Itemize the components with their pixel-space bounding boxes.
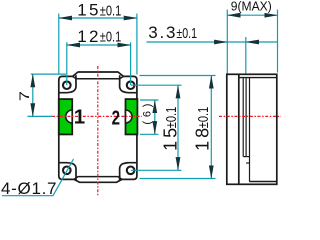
svg-text:2: 2 xyxy=(112,106,120,129)
svg-text:±0.1: ±0.1 xyxy=(176,24,197,41)
svg-text:±0.1: ±0.1 xyxy=(162,107,179,129)
svg-text:(6): (6) xyxy=(141,100,153,125)
svg-text:4-Ø1.7: 4-Ø1.7 xyxy=(1,179,57,198)
svg-text:±0.1: ±0.1 xyxy=(100,2,122,19)
svg-text:±0.1: ±0.1 xyxy=(100,28,122,45)
svg-text:7: 7 xyxy=(17,91,32,101)
svg-text:15: 15 xyxy=(77,0,101,19)
svg-text:3.3: 3.3 xyxy=(148,23,177,42)
svg-text:1: 1 xyxy=(74,106,85,129)
svg-text:12: 12 xyxy=(77,27,101,46)
svg-text:9(MAX): 9(MAX) xyxy=(231,0,272,14)
svg-text:±0.1: ±0.1 xyxy=(194,107,211,129)
